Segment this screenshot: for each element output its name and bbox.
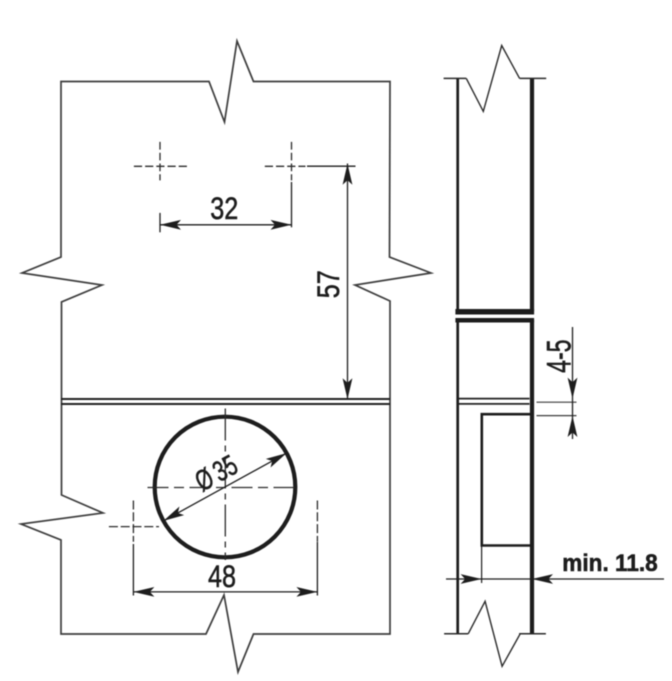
circle horizontal center line	[148, 487, 298, 489]
arrowhead min-11.8 left	[461, 574, 482, 584]
svg-text:57: 57	[311, 270, 346, 298]
door edge double line (front view)	[61, 398, 390, 400]
svg-text:Ø 35: Ø 35	[190, 449, 243, 498]
side view: bottom edge with break	[444, 633, 468, 635]
cup hole circle Ø35	[155, 417, 296, 558]
dim line 57	[347, 164, 349, 400]
cup pocket rectangle (section)	[482, 414, 531, 545]
dim line 4-5	[572, 327, 574, 439]
panel outline (front view, with break zigzags)	[21, 41, 431, 672]
dim line 32	[160, 224, 292, 226]
arrowhead 4-5 down	[568, 378, 578, 399]
circle vertical center line	[224, 409, 226, 561]
arrowhead diameter lower-left	[161, 506, 184, 525]
top-left screw crosshair	[134, 142, 187, 181]
arrowhead min-11.8 right	[532, 574, 553, 584]
svg-text:4-5: 4-5	[541, 339, 578, 372]
bottom-left screw crosshair	[109, 501, 159, 542]
dim line 48	[133, 591, 317, 593]
side view: left face line	[456, 78, 459, 311]
extension lines for 48 dim	[132, 544, 134, 596]
svg-text:min. 11.8: min. 11.8	[562, 549, 657, 576]
bottom-right screw crosshair	[316, 501, 318, 542]
extension lines for 32 dim	[159, 213, 161, 232]
extension line below cup (drill depth)	[481, 546, 483, 584]
extension lines for 4-5 dim	[537, 401, 577, 403]
top-right screw crosshair	[265, 142, 306, 181]
side view: right face line (thick)	[530, 78, 534, 311]
svg-text:32: 32	[210, 191, 238, 226]
side view: top edge with break	[444, 77, 467, 79]
arrowhead 32 left	[160, 220, 181, 230]
cup diameter dim line Ø35	[163, 453, 286, 521]
arrowhead diameter upper-right	[266, 449, 289, 468]
svg-text:48: 48	[208, 560, 236, 595]
dim line min. 11.8	[446, 578, 664, 580]
arrowhead 57 top	[343, 164, 353, 185]
arrowhead 48 right	[296, 587, 317, 597]
side view: door edge double line	[459, 398, 530, 400]
arrowhead 32 right	[271, 220, 292, 230]
side view: junction thick lines	[455, 309, 534, 315]
extension line for 57 dim (top)	[307, 165, 356, 167]
arrowhead 57 bottom	[343, 378, 353, 399]
arrowhead 4-5 up	[568, 416, 578, 437]
arrowhead 48 left	[133, 587, 154, 597]
